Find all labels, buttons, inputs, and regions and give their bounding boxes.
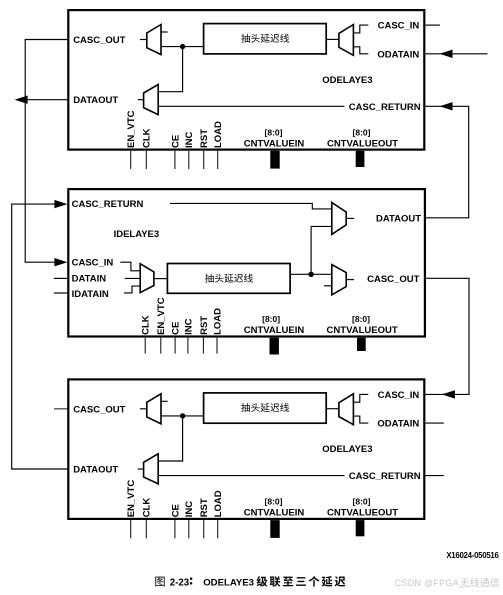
stub U3 CASC_RETURN (425, 475, 443, 477)
svg-text:DATAOUT: DATAOUT (376, 214, 421, 225)
U2 pin stub CLK (144, 338, 146, 354)
U1 DATAOUT mux (144, 85, 159, 115)
svg-text:CLK: CLK (142, 498, 153, 518)
wire into U1 ODATAIN (425, 53, 487, 55)
U1 wire CASC_RETURN to DATAOUT mux (158, 105, 344, 107)
svg-text:[8:0]: [8:0] (262, 314, 280, 324)
svg-text:IDATAIN: IDATAIN (72, 289, 109, 300)
svg-text:RST: RST (199, 129, 210, 148)
svg-text:CASC_RETURN: CASC_RETURN (349, 102, 421, 113)
U1 wire delay-line to CASC_OUT mux (161, 46, 204, 48)
U2 wire IDATAIN jog to input mux (124, 286, 141, 293)
svg-text:[8:0]: [8:0] (265, 127, 283, 137)
svg-text:ODELAYE3: ODELAYE3 (322, 75, 372, 86)
U3 wire junction down to DATAOUT mux (182, 416, 184, 461)
U2 tap delay line box (167, 264, 290, 294)
U3 junction node (180, 413, 185, 418)
svg-text:ODATAIN: ODATAIN (377, 419, 419, 430)
arrow into U2 CASC_IN (54, 258, 67, 266)
U2 wire DATAIN to input mux (125, 277, 141, 279)
svg-text:ODELAYE3: ODELAYE3 (203, 577, 254, 588)
U1 tap delay line label 抽头延迟线 (241, 34, 250, 43)
U3 CASC_OUT mux (147, 394, 161, 424)
U2 pin stub CE (174, 338, 176, 354)
U1 input mux (339, 25, 354, 56)
svg-text:CNTVALUEOUT: CNTVALUEOUT (327, 325, 398, 336)
svg-text:CNTVALUEIN: CNTVALUEIN (244, 138, 305, 149)
U3 pin stub RST (203, 520, 205, 538)
U1 pin stub LOAD (217, 151, 219, 169)
stub U1 CASC_IN (425, 24, 440, 26)
U2 wire junction up to DATAOUT mux (310, 226, 312, 274)
svg-text:[8:0]: [8:0] (352, 314, 370, 324)
U3 pin stub INC (188, 520, 190, 538)
svg-text:RST: RST (199, 316, 210, 335)
U1 wire CASC_IN jog to input mux (354, 25, 369, 33)
svg-text:ODATAIN: ODATAIN (377, 49, 419, 60)
U1 pin stub CLK (145, 151, 147, 169)
U2 CASC_OUT mux (332, 265, 346, 295)
U3 tap delay line box (204, 393, 327, 423)
svg-text:LOAD: LOAD (213, 490, 224, 517)
U1 bus stub CNTVALUEOUT (356, 151, 365, 167)
caption 图 2-23: ODELAYE3 级联至三个延迟 (155, 577, 164, 587)
U1 tap delay line box (204, 24, 327, 54)
U2 wire into DATAOUT mux lower input (311, 225, 332, 227)
svg-text:RST: RST (199, 498, 210, 517)
U2 wire delay-line output (290, 273, 332, 275)
ODELAYE3 block U3 outline (68, 379, 424, 519)
U2 junction node (308, 272, 313, 277)
wire U3 DATAOUT to U2 CASC_RETURN (12, 204, 68, 469)
U3 pin stub EN_VTC (130, 520, 132, 538)
U2 input mux (140, 264, 154, 293)
svg-text:CASC_OUT: CASC_OUT (73, 405, 125, 416)
svg-text:CE: CE (170, 504, 181, 517)
U3 CASC_OUT mux upper stub (161, 400, 168, 402)
U3 DATAOUT mux (144, 454, 159, 484)
U3 tap delay line label 抽头延迟线 (241, 403, 250, 412)
svg-text:X16024-050516: X16024-050516 (446, 551, 499, 560)
arrow into U3 CASC_IN (442, 390, 455, 398)
svg-text:CLK: CLK (142, 128, 153, 148)
svg-text:CASC_IN: CASC_IN (72, 257, 114, 268)
U2 DATAOUT mux output stub (346, 217, 354, 219)
U1 pin stub INC (188, 151, 190, 169)
svg-text:INC: INC (184, 132, 195, 149)
U3 bus stub CNTVALUEIN (270, 520, 279, 538)
svg-text:CE: CE (171, 322, 182, 335)
U3 wire ODATAIN jog to input mux (354, 416, 369, 423)
U2 bus stub CNTVALUEIN (270, 338, 279, 355)
svg-text:CNTVALUEOUT: CNTVALUEOUT (327, 508, 398, 519)
U3 DATAOUT mux output stub (138, 468, 144, 470)
U1 wire ODATAIN jog to input mux (354, 47, 369, 54)
svg-text:EN_VTC: EN_VTC (126, 480, 137, 518)
wire U2 DATAOUT to U1 CASC_RETURN (425, 106, 468, 218)
U1 bus stub CNTVALUEIN (270, 151, 279, 169)
U1 CASC_OUT mux (147, 25, 161, 55)
U1 CASC_OUT mux upper stub (161, 31, 168, 33)
U1 pin stub RST (203, 151, 205, 169)
svg-text:ODELAYE3: ODELAYE3 (322, 444, 372, 455)
U2 wire CASC_IN jog to input mux (120, 262, 140, 271)
U2 input mux output wire (154, 278, 168, 280)
arrow U1 DATAOUT (left, off-page) (15, 96, 28, 104)
svg-text:[8:0]: [8:0] (353, 497, 371, 507)
U2 DATAOUT mux (332, 203, 346, 235)
svg-text:LOAD: LOAD (213, 121, 224, 148)
wire U1 DATAOUT output (20, 99, 68, 101)
arrow into U1 ODATAIN (440, 50, 453, 58)
U1 pin stub EN_VTC (130, 151, 132, 169)
stub U3 CASC_OUT (gray) (54, 408, 67, 410)
svg-text:DATAOUT: DATAOUT (73, 465, 118, 476)
U3 pin stub CE (174, 520, 176, 538)
svg-text:CLK: CLK (141, 315, 152, 335)
U2 pin stub EN_VTC (160, 338, 162, 354)
U2 pin stub INC (187, 338, 189, 354)
U1 wire junction down to DATAOUT mux (182, 47, 184, 92)
U3 input mux (339, 394, 354, 425)
U2 CASC_OUT mux lower stub (324, 285, 332, 287)
svg-text:EN_VTC: EN_VTC (126, 110, 137, 148)
svg-text:[8:0]: [8:0] (265, 497, 283, 507)
U1 CASC_OUT mux output stub (140, 39, 147, 41)
U3 pin stub CLK (145, 520, 147, 538)
svg-text:CASC_OUT: CASC_OUT (367, 274, 419, 285)
U3 CASC_OUT mux output stub (140, 408, 147, 410)
U2 pin stub LOAD (216, 338, 218, 354)
svg-text:LOAD: LOAD (212, 308, 223, 335)
U3 wire CASC_IN jog to input mux (354, 394, 369, 402)
U1 junction node (180, 44, 185, 49)
U1 wire into DATAOUT mux top input (158, 91, 183, 93)
svg-text:CASC_RETURN: CASC_RETURN (72, 199, 144, 210)
svg-text:CNTVALUEIN: CNTVALUEIN (244, 325, 305, 336)
svg-text:CASC_IN: CASC_IN (378, 390, 420, 401)
svg-text:CNTVALUEIN: CNTVALUEIN (244, 508, 305, 519)
svg-text:INC: INC (184, 501, 195, 518)
wire U2 CASC_OUT to U3 CASC_IN (424, 278, 469, 394)
svg-text:2-23: 2-23 (170, 577, 190, 588)
svg-text:CSDN @FPGA_: CSDN @FPGA_ (395, 578, 465, 588)
arrow into U2 CASC_RETURN (54, 200, 67, 208)
IDELAYE3 block U2 outline (68, 189, 425, 336)
U3 wire delay-line to CASC_OUT mux (161, 415, 204, 417)
svg-text:IDELAYE3: IDELAYE3 (114, 229, 160, 240)
svg-text:DATAIN: DATAIN (72, 274, 107, 285)
arrow into U1 CASC_RETURN (440, 102, 453, 110)
svg-text:DATAOUT: DATAOUT (73, 95, 118, 106)
stub U3 ODATAIN (425, 422, 443, 424)
stub U2 DATAIN (54, 277, 68, 279)
U2 pin stub RST (202, 338, 204, 354)
U2 CASC_OUT mux output stub (346, 279, 354, 281)
svg-text:INC: INC (183, 318, 194, 335)
U1 DATAOUT mux output stub (138, 99, 144, 101)
svg-text:CNTVALUEOUT: CNTVALUEOUT (327, 138, 398, 149)
U1 pin stub CE (174, 151, 176, 169)
U3 wire CASC_RETURN to DATAOUT mux (158, 475, 344, 477)
wire U1 CASC_OUT to U2 CASC_IN (25, 40, 68, 263)
svg-text:CASC_RETURN: CASC_RETURN (349, 471, 421, 482)
svg-text:CASC_IN: CASC_IN (378, 21, 420, 32)
U3 wire into DATAOUT mux top input (158, 460, 183, 462)
svg-text:EN_VTC: EN_VTC (156, 297, 167, 335)
U2 bus stub CNTVALUEOUT (357, 338, 366, 351)
svg-text:CE: CE (170, 135, 181, 148)
U3 pin stub LOAD (217, 520, 219, 538)
U2 tap delay line label 抽头延迟线 (205, 274, 214, 283)
U2 wire CASC_RETURN to DATAOUT mux (170, 203, 332, 209)
stub U2 IDATAIN (54, 292, 68, 294)
U1 input mux output wire (326, 38, 339, 40)
ODELAYE3 block U1 outline (68, 10, 424, 150)
U3 input mux output wire (326, 408, 339, 410)
svg-text:CASC_OUT: CASC_OUT (73, 35, 125, 46)
svg-text:[8:0]: [8:0] (353, 127, 371, 137)
U3 bus stub CNTVALUEOUT (356, 520, 365, 536)
